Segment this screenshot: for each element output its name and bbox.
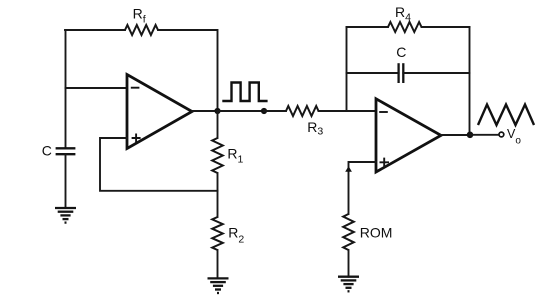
wire: ROM to ground — [348, 250, 350, 277]
wire: R4 branch left lead — [347, 26, 389, 28]
resistor ROM — [343, 214, 354, 250]
svg-text:ROM: ROM — [360, 224, 393, 240]
resistor R3 — [286, 106, 319, 116]
wire: node A down to R1 — [217, 111, 219, 138]
triangle-wave symbol — [478, 105, 534, 126]
wire: U2 non-inverting input to ROM — [349, 162, 377, 214]
wire: U1 non-inverting input loop to R1/R2 junction — [100, 138, 218, 191]
output terminal (open circle) — [499, 132, 504, 137]
resistor R4 — [388, 22, 422, 32]
wire: R2 to ground — [217, 250, 219, 278]
op-amp U2 triangle — [376, 99, 441, 172]
svg-text:C: C — [396, 44, 406, 60]
node B — [261, 108, 267, 114]
U1 non-inverting input marker (+) — [132, 134, 141, 143]
capacitor C (left) — [56, 148, 76, 154]
node A (U1 output junction) — [214, 108, 220, 114]
ground (below R2) — [208, 278, 229, 293]
wire: right vertical down to output node C — [469, 27, 471, 135]
square-wave symbol — [222, 83, 267, 102]
wire: node C to output terminal — [470, 134, 499, 136]
arrowhead on U2 non-inverting input wire — [345, 166, 352, 172]
wire: capacitor C to ground — [65, 154, 67, 208]
ground (below left capacitor C) — [55, 208, 76, 223]
resistor R2 — [212, 217, 223, 250]
node C (output junction) — [467, 132, 474, 139]
wire: feedback capacitor to right vertical — [403, 72, 469, 74]
op-amp U2 — [376, 99, 441, 172]
resistor Rf — [125, 25, 158, 35]
wire: node A to node B — [218, 110, 265, 112]
resistor R1 — [212, 138, 223, 173]
wire: top lead from top-left corner to Rf — [65, 29, 125, 31]
svg-text:C: C — [42, 143, 52, 159]
wire: R1 to R2 — [217, 173, 219, 217]
U1 inverting input marker (-) — [131, 87, 140, 89]
op-amp U1 — [127, 75, 192, 149]
op-amp U1 triangle — [127, 75, 192, 149]
wire: C branch left lead — [347, 72, 399, 74]
ground (below ROM) — [338, 277, 359, 292]
wire: R3 to U2 inverting input — [319, 110, 377, 112]
wire: inverting input branch to op-amp U1 — [66, 87, 128, 89]
U2 inverting input marker (-) — [379, 111, 388, 113]
wire: feedback-loop left vertical (inverting node up to R4/C branches) — [346, 27, 348, 111]
U2 non-inverting input marker (+) — [380, 158, 390, 167]
wire: node B to R3 — [264, 110, 286, 112]
capacitor C (feedback) — [399, 63, 404, 83]
wire: U1 output to node A — [192, 110, 218, 112]
wire: U2 output to node C — [441, 134, 470, 136]
wire: left vertical from top-left corner down to capacitor C — [65, 30, 67, 148]
wire: Rf to top-right corner and down to output node A — [158, 30, 218, 111]
wire: R4 to right vertical — [422, 26, 470, 28]
